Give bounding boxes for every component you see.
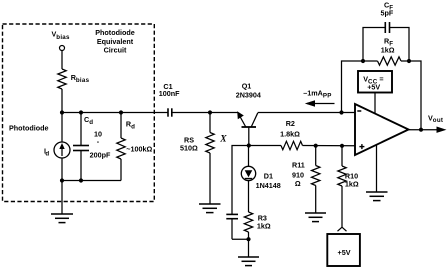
ground R11 <box>305 212 326 214</box>
svg-text:Vout: Vout <box>428 114 443 125</box>
wire RF right <box>401 60 409 62</box>
svg-text:1N4148: 1N4148 <box>256 181 281 190</box>
label RF <box>381 37 395 55</box>
label C1 <box>159 82 180 98</box>
junction dot RF left <box>361 59 365 63</box>
label Id <box>44 146 49 157</box>
node Vbias label <box>52 29 70 41</box>
junction dot R11 top <box>314 144 318 148</box>
label R2 <box>280 119 300 138</box>
wire Rbias to top node <box>61 89 63 113</box>
ground R3 <box>248 239 250 257</box>
junction dot base node <box>247 143 251 147</box>
svg-text:1kΩ: 1kΩ <box>345 180 359 189</box>
svg-text:X: X <box>219 134 227 144</box>
transistor Q1 <box>237 111 258 145</box>
+5V supply box <box>327 234 360 266</box>
resistor R2 <box>281 141 303 149</box>
label Rbias <box>71 73 90 84</box>
resistor Rd <box>120 113 122 139</box>
svg-text:Vbias: Vbias <box>52 29 70 41</box>
wire output <box>409 129 441 131</box>
label D1 <box>256 172 281 191</box>
junction dot E <box>79 178 83 182</box>
svg-text:~100kΩ: ~100kΩ <box>126 145 152 154</box>
wire Id to bottom bus <box>61 158 63 181</box>
label R10 <box>345 172 359 189</box>
wire RF right to output vertical <box>409 61 421 130</box>
wire bottom bus <box>62 180 121 182</box>
label Vout <box>428 114 443 125</box>
op-amp U1 <box>355 104 409 155</box>
connector arrow to +5V <box>338 227 347 231</box>
label R3 <box>257 213 271 230</box>
svg-text:–1mAPP: –1mAPP <box>303 89 331 100</box>
svg-text:1kΩ: 1kΩ <box>257 222 271 231</box>
svg-text:510Ω: 510Ω <box>180 143 198 152</box>
capacitor C2 bypass <box>226 213 238 215</box>
svg-text:200pF: 200pF <box>90 150 111 159</box>
svg-text:Ω: Ω <box>295 179 301 188</box>
svg-text:Id: Id <box>44 146 49 157</box>
resistor R10 <box>341 146 343 166</box>
junction dot C <box>119 110 123 114</box>
svg-text:Cd: Cd <box>84 115 93 126</box>
label RS <box>180 134 227 152</box>
svg-text:2N3904: 2N3904 <box>236 90 261 99</box>
label Cd <box>84 115 111 160</box>
svg-text:+5V: +5V <box>338 248 351 257</box>
ground RS <box>199 203 221 205</box>
resistor R3 <box>244 212 252 232</box>
arrow -1mApp <box>307 103 335 105</box>
junction dot D <box>60 178 64 182</box>
svg-text:R2: R2 <box>286 119 295 128</box>
svg-text:Rd: Rd <box>126 119 135 130</box>
wire base node to R2 <box>249 145 281 147</box>
Vcc box <box>358 71 392 93</box>
label Rd <box>126 119 153 153</box>
svg-text:R11: R11 <box>292 161 305 170</box>
resistor R11 <box>315 146 317 166</box>
svg-text:Rbias: Rbias <box>71 73 90 84</box>
resistor RF <box>378 57 402 65</box>
junction dot inverting node <box>339 110 343 114</box>
wire R2 to op-amp plus <box>303 145 356 147</box>
svg-text:Photodiode: Photodiode <box>95 28 135 37</box>
svg-text:Q1: Q1 <box>242 82 252 91</box>
label CF <box>381 1 394 18</box>
photodiode equivalent circuit dashed box <box>3 24 155 202</box>
resistor RS <box>209 113 211 133</box>
wire to RF <box>363 60 378 62</box>
svg-text:1.8kΩ: 1.8kΩ <box>280 129 300 138</box>
diode D1 <box>248 146 250 167</box>
wire Q1 collector to op-amp <box>258 112 355 114</box>
junction dot F <box>208 110 212 114</box>
wire Vcc to op-amp <box>374 93 376 115</box>
label R11 <box>292 161 305 188</box>
svg-text:Circuit: Circuit <box>104 46 127 55</box>
svg-text:1kΩ: 1kΩ <box>381 46 395 55</box>
capacitor CF branch <box>363 28 385 62</box>
resistor Rbias <box>58 69 66 89</box>
wire op-amp negative pin to ground <box>376 145 378 192</box>
svg-text:+5V: +5V <box>367 82 380 91</box>
capacitor Cd <box>80 113 82 146</box>
title: Photodiode Equivalent Circuit <box>95 28 135 54</box>
ground photodiode <box>61 181 63 215</box>
junction dot output <box>419 128 423 132</box>
capacitor C1 <box>167 108 169 116</box>
Vbias terminal circle <box>60 46 65 51</box>
junction dot A <box>60 110 64 114</box>
wire feedback left vertical <box>342 61 364 113</box>
wire C1 to Q1 emitter <box>172 112 238 114</box>
svg-text:5pF: 5pF <box>381 9 394 18</box>
wire Vbias to Rbias <box>61 51 63 70</box>
ground op-amp <box>366 191 388 193</box>
junction dot R3 bottom <box>246 237 250 241</box>
wire cap to R3 bottom node <box>232 238 249 240</box>
wire base node to bypass cap <box>232 146 249 215</box>
junction dot B <box>79 110 83 114</box>
current source Id <box>61 113 63 143</box>
junction dot RF right <box>407 59 411 63</box>
wire top node bus <box>62 112 168 114</box>
junction dot R10 top <box>340 144 344 148</box>
svg-text:Photodiode: Photodiode <box>9 124 49 133</box>
label -1mApp <box>303 89 331 100</box>
arrow output <box>437 127 447 133</box>
svg-text:100nF: 100nF <box>159 89 180 98</box>
label Q1 <box>236 82 261 100</box>
svg-text:D1: D1 <box>264 172 273 181</box>
